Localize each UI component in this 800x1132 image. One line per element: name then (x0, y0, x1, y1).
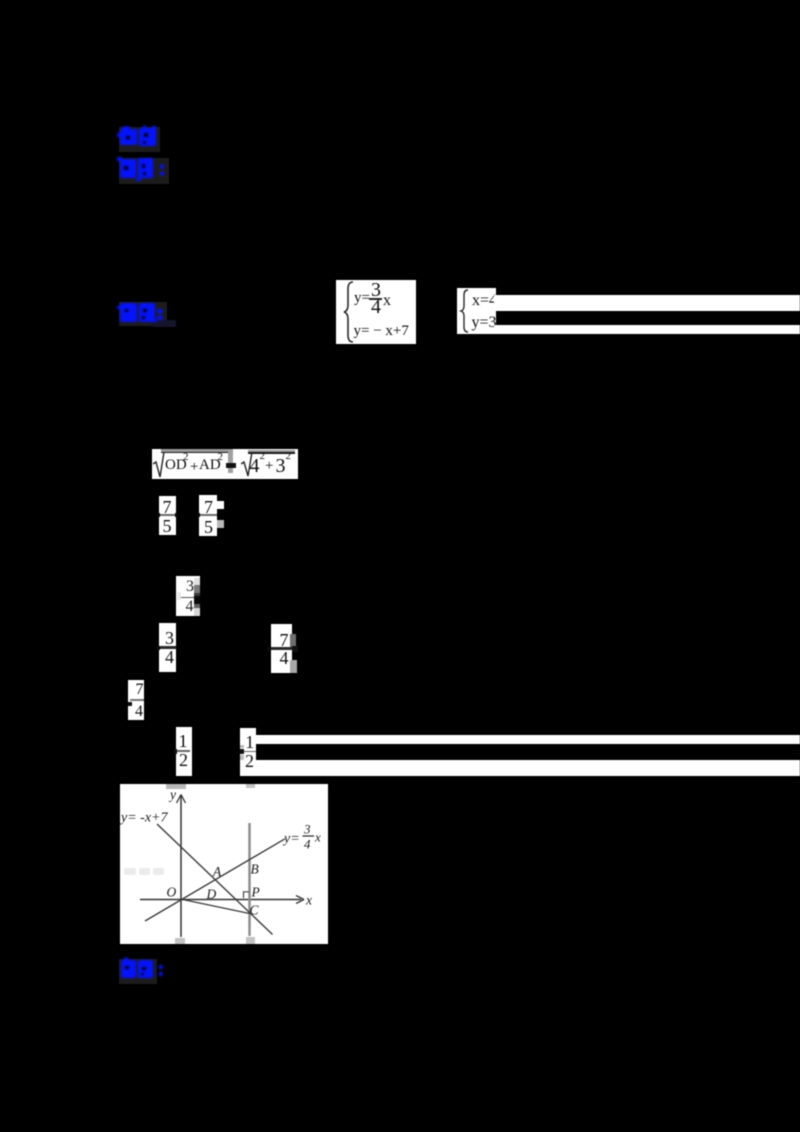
svg-text:y= -x+7: y= -x+7 (120, 811, 168, 826)
svg-text:4: 4 (304, 837, 311, 852)
svg-text:B: B (251, 862, 259, 877)
svg-text:D: D (206, 887, 217, 902)
svg-text:P: P (251, 885, 260, 900)
svg-text:x: x (314, 830, 321, 845)
svg-text:x: x (305, 893, 312, 908)
svg-text:y: y (168, 787, 176, 802)
svg-text:A: A (212, 864, 222, 879)
svg-text:3: 3 (303, 822, 311, 837)
svg-text:y=: y= (282, 832, 300, 847)
svg-text:C: C (250, 903, 260, 918)
svg-text:O: O (167, 885, 177, 900)
